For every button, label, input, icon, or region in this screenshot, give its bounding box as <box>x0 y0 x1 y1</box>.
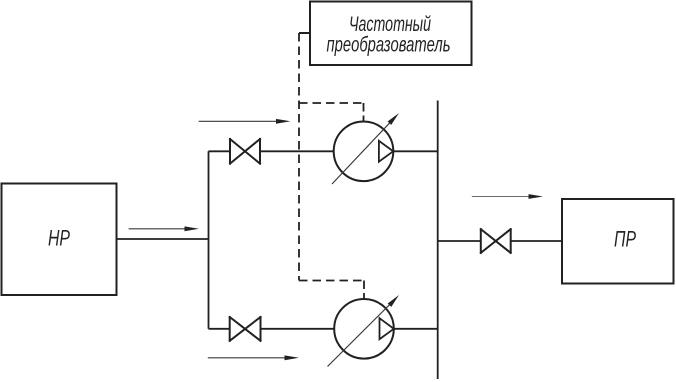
svg-text:НР: НР <box>48 226 70 251</box>
wire output right segment <box>511 240 562 242</box>
valve V2 lower <box>230 317 261 341</box>
wire right manifold vertical <box>437 101 439 380</box>
pump P2 triangle <box>380 318 394 339</box>
flow arrow C (lower branch) <box>208 355 299 360</box>
wire lower branch mid segment <box>261 328 335 330</box>
pump P1 circle <box>334 122 394 182</box>
pump P1 triangle <box>379 141 393 162</box>
pump P2 variable arrow diagonal <box>328 295 400 367</box>
wire lower branch right segment <box>394 328 438 330</box>
wire upper branch left segment <box>209 150 231 152</box>
pump P1 variable arrow diagonal <box>332 113 399 184</box>
wire upper branch right segment <box>393 150 437 152</box>
svg-text:ПР: ПР <box>614 227 636 252</box>
wire dashed control to P1 drop <box>363 103 365 121</box>
flow arrow D (output) <box>472 194 543 199</box>
box HP (left tank НР) <box>2 184 117 296</box>
svg-text:преобразователь: преобразователь <box>327 34 451 57</box>
wire dashed control to P2 drop <box>363 281 365 299</box>
wire dashed control to P2 horizontal <box>299 280 364 282</box>
wire input line HP to left manifold <box>117 238 209 240</box>
wire solid stub from frequency box <box>299 32 310 34</box>
valve V1 upper <box>230 139 260 164</box>
wire left manifold vertical <box>208 151 210 328</box>
valve V3 output <box>481 229 511 253</box>
wire lower branch left segment <box>209 328 230 330</box>
wire dashed control vertical <box>298 33 300 281</box>
wire output left segment <box>438 240 481 242</box>
pump P2 circle <box>334 299 394 359</box>
wire upper branch mid segment <box>260 150 334 152</box>
wire dashed control to P1 horizontal <box>299 102 364 104</box>
flow arrow B (upper branch) <box>199 119 291 124</box>
box frequency converter (Частотный преобразователь) <box>310 2 472 66</box>
box PR (right tank ПР) <box>562 199 674 284</box>
flow arrow A (HP to manifold) <box>129 226 199 231</box>
